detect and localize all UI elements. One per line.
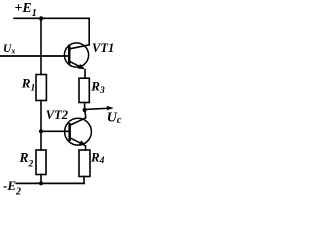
svg-text:VT2: VT2 <box>46 108 68 122</box>
svg-text:VT1: VT1 <box>92 41 114 55</box>
